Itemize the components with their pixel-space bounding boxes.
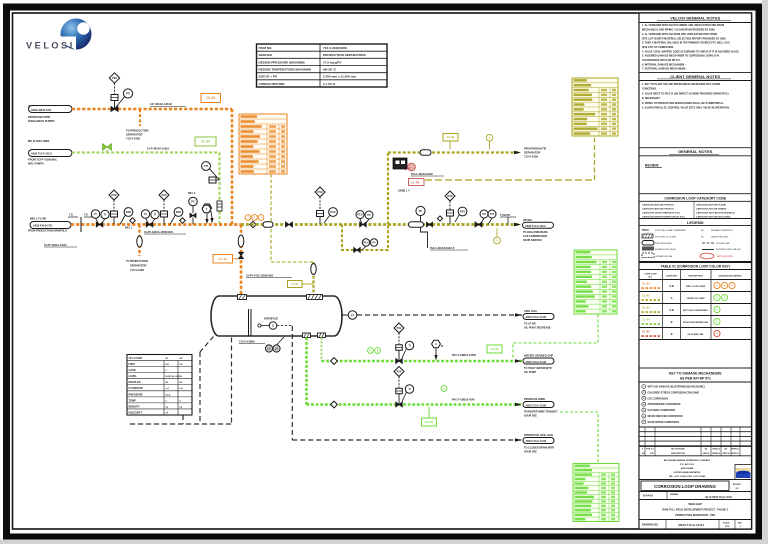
orange line list table bbox=[239, 114, 287, 174]
svg-text:WEL 2: WEL 2 bbox=[188, 192, 196, 195]
wire olive main header bbox=[241, 223, 520, 226]
damage ref olive header bbox=[494, 237, 501, 244]
label LWG GOA outlet bbox=[515, 313, 522, 316]
svg-text:DRWN A: DRWN A bbox=[712, 452, 720, 455]
svg-text:DATE A: DATE A bbox=[703, 452, 710, 455]
svg-text:VISCOSITY: VISCOSITY bbox=[129, 410, 143, 414]
corrosion loop tag CL-03 lower bbox=[422, 418, 437, 426]
svg-text:PSV: PSV bbox=[397, 327, 402, 330]
svg-text:WELL FLUID: WELL FLUID bbox=[30, 217, 46, 221]
svg-text:CL-05: CL-05 bbox=[642, 330, 650, 334]
wire green link top table bbox=[513, 315, 598, 359]
svg-text:CHKD A: CHKD A bbox=[712, 448, 720, 451]
svg-text:VELOSI GENERAL NOTES: VELOSI GENERAL NOTES bbox=[670, 16, 720, 21]
wire orange vertical riser A bbox=[231, 109, 234, 225]
svg-text:CONFIGURATION: CONFIGURATION bbox=[259, 82, 286, 86]
svg-text:AB23-713-G-13141: AB23-713-G-13141 bbox=[526, 404, 548, 407]
svg-text:PSV: PSV bbox=[397, 370, 402, 373]
svg-text:31-PY-4751-13500-B51: 31-PY-4751-13500-B51 bbox=[246, 274, 274, 278]
svg-text:SOUR SERVICE: SOUR SERVICE bbox=[523, 239, 542, 242]
svg-text:PV: PV bbox=[367, 213, 371, 217]
valve on olive header 3 bbox=[475, 222, 479, 227]
valve below PC bbox=[190, 213, 193, 218]
svg-text:TI: TI bbox=[408, 343, 411, 347]
svg-text:MICRO INDUCED CORROSION: MICRO INDUCED CORROSION bbox=[648, 415, 683, 418]
svg-text:31-PF-4391A-13500-B51: 31-PF-4391A-13500-B51 bbox=[144, 230, 174, 234]
svg-text:AS PER API RP 571: AS PER API RP 571 bbox=[680, 377, 711, 381]
instrument ESD circle 2 bbox=[174, 208, 183, 217]
corrosion loop tag CL-01 top bbox=[201, 94, 221, 103]
valve on orange drop bbox=[239, 252, 244, 259]
svg-text:PRH PRODUKTIE: PRH PRODUKTIE bbox=[524, 147, 546, 151]
valve on olive header 2 bbox=[427, 222, 430, 227]
svg-text:CL-04: CL-04 bbox=[201, 140, 210, 144]
transition diamond green line bbox=[331, 401, 338, 408]
instrument PSV diamond green bbox=[394, 323, 404, 333]
svg-text:LEVEL: LEVEL bbox=[129, 374, 138, 378]
svg-text:OIL PUMP: OIL PUMP bbox=[524, 371, 536, 374]
svg-text:AB23-713-G-13141: AB23-713-G-13141 bbox=[526, 440, 548, 443]
svg-text:CATEGORY-G(TO BE NON VESSELS): CATEGORY-G(TO BE NON VESSELS) bbox=[696, 212, 735, 215]
svg-text:GENERAL NOTES: GENERAL NOTES bbox=[678, 149, 713, 154]
svg-text:NO.: NO. bbox=[649, 277, 653, 279]
svg-text:CATEGORY-C(FOR STAINLESS STL): CATEGORY-C(FOR STAINLESS STL) bbox=[642, 212, 680, 215]
svg-text:3. TAKE A MATERIAL BALANCE IN: 3. TAKE A MATERIAL BALANCE IN THE PRIMAR… bbox=[642, 42, 730, 45]
valve butterfly green on MP line bbox=[103, 144, 108, 151]
svg-text:CL-03: CL-03 bbox=[491, 347, 499, 351]
svg-text:TO HIGH PRESSURE: TO HIGH PRESSURE bbox=[523, 231, 548, 234]
svg-text:DRAWING NO.: DRAWING NO. bbox=[642, 524, 659, 527]
wire green vertical from bottom nozzle 1 bbox=[305, 338, 308, 405]
choke valve green line bbox=[396, 388, 403, 394]
svg-text:A: A bbox=[671, 296, 673, 300]
svg-text:713-V-0108: 713-V-0108 bbox=[129, 356, 143, 360]
instrument PSD diamond on top line bbox=[109, 73, 119, 83]
corrosion loop tag CL-01 lower bbox=[213, 255, 233, 264]
inline pill on olive header bbox=[409, 222, 424, 228]
svg-text:AB23-713-G-13121: AB23-713-G-13121 bbox=[526, 316, 548, 319]
vessel nozzle group top right bbox=[307, 295, 323, 300]
svg-text:NOT IN SCOPE: NOT IN SCOPE bbox=[717, 256, 733, 258]
svg-text:barg: barg bbox=[166, 394, 171, 396]
svg-text:TI: TI bbox=[154, 212, 157, 216]
svg-text:ATMOSPHERIC CORROSION: ATMOSPHERIC CORROSION bbox=[648, 403, 681, 406]
svg-text:UNITED ARAB EMIRATES: UNITED ARAB EMIRATES bbox=[674, 471, 701, 474]
svg-text:PRODUCE WIRE: PRODUCE WIRE bbox=[524, 397, 545, 401]
svg-text:CL-02: CL-02 bbox=[642, 294, 650, 298]
svg-text:1. KEY TO PLANT ON LINE PRESSU: 1. KEY TO PLANT ON LINE PRESSURE/FLOW RE… bbox=[642, 83, 720, 86]
svg-text:ITEM NO.: ITEM NO. bbox=[259, 46, 273, 50]
instrument PIT on green drop bbox=[202, 162, 211, 171]
damage refs green line 1 bbox=[368, 348, 374, 354]
svg-text:3. PIPING TO PRODUCTION SEPARA: 3. PIPING TO PRODUCTION SEPARATIONS SHAL… bbox=[642, 102, 724, 105]
wire black dashed vessel left diagonal bbox=[200, 337, 214, 353]
control station black box bbox=[393, 158, 407, 169]
instrument PSD diamond olive 2 bbox=[445, 191, 455, 201]
svg-text:FROM PRODUCTION MANIFOLD: FROM PRODUCTION MANIFOLD bbox=[28, 230, 67, 233]
svg-text:PRODUCED WTR: PRODUCED WTR bbox=[28, 115, 50, 119]
svg-text:DAMAGE MECHANISM: DAMAGE MECHANISM bbox=[719, 275, 742, 278]
svg-text:FUTURE LINE: FUTURE LINE bbox=[716, 243, 730, 245]
svg-text:PSV: PSV bbox=[460, 209, 465, 213]
svg-text:WET GAS CONDENSATE: WET GAS CONDENSATE bbox=[683, 309, 708, 312]
svg-text:INTERFACE: INTERFACE bbox=[264, 318, 279, 321]
wire orange top line bbox=[72, 108, 232, 111]
svg-text:HP WC: HP WC bbox=[523, 218, 532, 222]
pipe flag MP flow line inlet bbox=[29, 150, 73, 157]
svg-text:PH-C-ADA3-034Z-F: PH-C-ADA3-034Z-F bbox=[430, 246, 455, 250]
instrument pair PI/TI well cluster 1 bbox=[91, 210, 99, 218]
sidebar key to damage mechanisms bbox=[639, 367, 752, 369]
inline item top olive line bbox=[420, 150, 431, 156]
svg-text:LWSB L 4: LWSB L 4 bbox=[398, 190, 410, 193]
instrument hexagon computer function bbox=[202, 204, 211, 212]
svg-text:TEL: +971 2 6060, FAX: +971 2: TEL: +971 2 6060, FAX: +971 2 6666 bbox=[669, 475, 707, 478]
svg-text:NO: NO bbox=[701, 230, 705, 232]
svg-text:PSD: PSD bbox=[112, 194, 117, 197]
svg-text:5. ASSUMED DAMAGE MECHANISM TO: 5. ASSUMED DAMAGE MECHANISM TO CORROSION… bbox=[642, 55, 719, 58]
svg-text:CL-01: CL-01 bbox=[206, 96, 215, 100]
damage ref olive top bbox=[486, 134, 493, 141]
choke valve 1 bbox=[111, 211, 118, 217]
svg-text:CORR LOOP: CORR LOOP bbox=[644, 274, 657, 276]
svg-text:Y: Y bbox=[206, 207, 208, 211]
svg-text:CORROSION LOOP DRAWING: CORROSION LOOP DRAWING bbox=[654, 484, 716, 489]
small diamond 1 bbox=[130, 218, 136, 224]
svg-text:SEPARATOR: SEPARATOR bbox=[126, 133, 142, 137]
svg-text:90/-29 °C: 90/-29 °C bbox=[323, 67, 337, 71]
svg-text:POST WELD HEAT TREATMENT: POST WELD HEAT TREATMENT bbox=[655, 229, 687, 232]
svg-text:PIPE INSULATED: PIPE INSULATED bbox=[655, 242, 672, 245]
sample point red circle bbox=[408, 163, 416, 171]
svg-text:31-PF-4391A-13116: 31-PF-4391A-13116 bbox=[44, 244, 67, 247]
instrument PSV diamond green bbox=[394, 367, 404, 377]
svg-text:PRESSURE: PRESSURE bbox=[129, 392, 144, 396]
svg-text:PSD: PSD bbox=[112, 77, 117, 80]
svg-text:SEPARATOR: SEPARATOR bbox=[130, 264, 146, 268]
svg-text:B: B bbox=[671, 320, 673, 324]
svg-text:SOUR SEE: SOUR SEE bbox=[524, 451, 537, 454]
svg-text:DESIGN TEMPERATURE (MAX/MIN): DESIGN TEMPERATURE (MAX/MIN) bbox=[259, 67, 311, 71]
svg-text:A-B: A-B bbox=[669, 284, 674, 288]
svg-text:SITE LIST IN WITH MATERIAL SEL: SITE LIST IN WITH MATERIAL SELECTION REP… bbox=[642, 37, 726, 40]
svg-text:B: B bbox=[671, 332, 673, 336]
svg-text:WATER/ SEAWED GHE: WATER/ SEAWED GHE bbox=[524, 354, 553, 358]
label water outlet bbox=[515, 359, 522, 362]
svg-text:CL-7B: CL-7B bbox=[411, 181, 419, 185]
svg-text:NOR.OIL LEVEL: NOR.OIL LEVEL bbox=[166, 376, 183, 378]
wire green produced water line 1 bbox=[307, 403, 523, 406]
svg-text:SOUR WATER CORROSION: SOUR WATER CORROSION bbox=[648, 421, 680, 424]
svg-text:TO LP WC: TO LP WC bbox=[524, 323, 536, 326]
svg-text:P.O. BOX 303: P.O. BOX 303 bbox=[680, 464, 694, 466]
svg-text:PSD: PSD bbox=[448, 195, 453, 198]
svg-text:PSD: PSD bbox=[162, 194, 167, 197]
wire olive long-dash link line bbox=[425, 179, 595, 181]
svg-text:WEL 1: WEL 1 bbox=[125, 227, 133, 230]
svg-text:PIT: PIT bbox=[204, 164, 208, 168]
svg-text:V E L O S I: V E L O S I bbox=[26, 41, 72, 51]
svg-text:SOUR SEE: SOUR SEE bbox=[524, 415, 537, 418]
svg-text:PC: PC bbox=[191, 199, 195, 203]
svg-text:AB23-713-G-13131: AB23-713-G-13131 bbox=[526, 361, 548, 364]
svg-text:CHLORIDE STRESS CORROSION CRAC: CHLORIDE STRESS CORROSION CRACKING bbox=[648, 391, 700, 394]
svg-text:DATE B: DATE B bbox=[723, 452, 731, 455]
svg-text:WEL PUMPS: WEL PUMPS bbox=[28, 162, 44, 166]
svg-text:PIT: PIT bbox=[490, 212, 494, 216]
svg-text:FLOWRATE: FLOWRATE bbox=[129, 386, 144, 390]
svg-text:0/0: 0/0 bbox=[736, 488, 739, 490]
svg-text:CL-02: CL-02 bbox=[447, 135, 455, 139]
wire black dashed vessel drop bbox=[231, 338, 233, 425]
svg-text:2. AL VERSIONS WITH P&I STEM A: 2. AL VERSIONS WITH P&I STEM ARE USED EX… bbox=[642, 33, 717, 36]
wire orange drop to vessel nozzle bbox=[240, 225, 243, 296]
svg-text:PIT: PIT bbox=[126, 91, 130, 95]
svg-text:ABU DHABI MARINE OPERATING COM: ABU DHABI MARINE OPERATING COMPANY bbox=[664, 459, 711, 462]
wire black dashed drain vertical bbox=[291, 326, 293, 440]
instrument LT on vessel right head bbox=[341, 314, 348, 316]
sidebar outline bbox=[639, 13, 752, 529]
instrument PIT circle top line bbox=[123, 89, 132, 98]
svg-text:HA-VI-AB23-713-G-13111: HA-VI-AB23-713-G-13111 bbox=[705, 496, 733, 499]
valve on green line bbox=[396, 402, 399, 407]
svg-text:CL-03: CL-03 bbox=[642, 306, 650, 310]
wire green MP line bbox=[72, 151, 220, 153]
svg-text:A: A bbox=[435, 342, 437, 346]
svg-text:713-V-0108/0208: 713-V-0108/0208 bbox=[323, 46, 347, 50]
svg-text:713-V-0108: 713-V-0108 bbox=[126, 137, 140, 141]
svg-text:SCALE: SCALE bbox=[723, 522, 730, 525]
sidebar drawing type box bbox=[639, 479, 752, 481]
corrosion loop tag CL-04 bbox=[195, 137, 216, 146]
arrow to main line bbox=[206, 213, 208, 219]
svg-text:PN-1T-ADB23-4340: PN-1T-ADB23-4340 bbox=[452, 399, 475, 402]
svg-text:FROM 713-P-0158A/B/C: FROM 713-P-0158A/B/C bbox=[28, 158, 57, 162]
svg-text:ABU DHABI: ABU DHABI bbox=[681, 467, 694, 470]
valve actuated on green drop bbox=[209, 177, 216, 183]
svg-text:OPERATION LINE: OPERATION LINE bbox=[655, 255, 673, 258]
svg-text:CO2 CORROSION: CO2 CORROSION bbox=[648, 397, 669, 400]
instrument PSD diamond 2 bbox=[159, 190, 169, 200]
vessel bottom nozzle 1 bbox=[303, 333, 311, 338]
svg-text:CATEGORY-A(TO BE PWHT-D): CATEGORY-A(TO BE PWHT-D) bbox=[642, 203, 674, 206]
svg-text:TO TIGHT WATER/WTR: TO TIGHT WATER/WTR bbox=[524, 367, 552, 370]
choke valve olive 2 bbox=[447, 210, 454, 216]
wire orange main header bbox=[71, 223, 241, 226]
svg-text:7. EXTERNAL DAMAGE MECHANISM: 7. EXTERNAL DAMAGE MECHANISM ○ bbox=[642, 68, 688, 71]
wire green water line 1 elbow bbox=[322, 360, 523, 363]
svg-text:CL-04: CL-04 bbox=[642, 318, 650, 322]
valve on olive header mid bbox=[360, 222, 363, 227]
svg-text:PN-1T-ADB2J-13500: PN-1T-ADB2J-13500 bbox=[452, 354, 477, 357]
svg-text:NTS: NTS bbox=[725, 526, 730, 528]
wire black dashed under table bbox=[130, 423, 232, 425]
instrument LG pair below vessel bbox=[265, 345, 272, 352]
svg-text:EXISTING LIMIT LINE (IS): EXISTING LIMIT LINE (IS) bbox=[716, 249, 741, 251]
vessel nozzle N1 top left bbox=[238, 295, 247, 300]
svg-text:TI: TI bbox=[104, 212, 107, 216]
svg-text:AB23-438-B-1731: AB23-438-B-1731 bbox=[33, 224, 53, 227]
svg-text:TO CLOSED DRAIN WITH: TO CLOSED DRAIN WITH bbox=[524, 447, 554, 450]
wire black dashed table hook bbox=[182, 415, 184, 424]
svg-text:KEY TO DAMAGE MECHANISMS: KEY TO DAMAGE MECHANISMS bbox=[669, 372, 722, 376]
svg-text:713-V-0108A: 713-V-0108A bbox=[239, 340, 255, 344]
svg-text:LG: LG bbox=[275, 348, 278, 351]
svg-text:RAW FULL FIELD DEVELOPMENT PRO: RAW FULL FIELD DEVELOPMENT PROJECT - PHA… bbox=[662, 509, 729, 512]
svg-text:CRUDE OIL LINES: CRUDE OIL LINES bbox=[686, 298, 705, 300]
wire orange branch to separator train 2 bbox=[138, 225, 140, 257]
instrument pair PCV PV on header bbox=[356, 211, 364, 219]
instrument TI circle green bbox=[405, 341, 413, 349]
label interface outlet bbox=[515, 438, 522, 441]
wire olive top line to separator bbox=[388, 151, 520, 153]
svg-text:DN: DN bbox=[166, 364, 170, 366]
svg-text:DENSITY: DENSITY bbox=[129, 404, 141, 408]
svg-text:PSD: PSD bbox=[318, 191, 323, 194]
svg-text:LWG GOA: LWG GOA bbox=[524, 309, 537, 313]
wire black signal below header bbox=[421, 225, 428, 249]
instrument ESD circle 1 bbox=[124, 208, 133, 217]
black data table lower left bbox=[127, 355, 192, 416]
bypass loop under header bbox=[342, 225, 388, 251]
wire black dashed LP gas line bbox=[357, 314, 522, 316]
wire green vertical from bottom nozzle 2 bbox=[321, 338, 323, 362]
choke valve 2 bbox=[161, 211, 168, 217]
svg-text:AB23-713-G-13111: AB23-713-G-13111 bbox=[525, 225, 546, 228]
svg-text:2 x 50 %: 2 x 50 % bbox=[323, 82, 335, 86]
svg-text:WHO-HHP: WHO-HHP bbox=[688, 502, 702, 506]
svg-text:ESD: ESD bbox=[126, 210, 131, 214]
corrosion loop tag CL-02 top bbox=[443, 134, 458, 142]
valve on main header 2 bbox=[146, 222, 149, 227]
svg-text:SIZE ID + PS: SIZE ID + PS bbox=[259, 75, 277, 79]
svg-text:1. AL VERSIONS WITH P&I DOCUME: 1. AL VERSIONS WITH P&I DOCUMENT ARE USE… bbox=[642, 24, 724, 27]
svg-text:APPD A: APPD A bbox=[731, 448, 739, 451]
svg-text:DESCRIPTION: DESCRIPTION bbox=[671, 453, 685, 455]
svg-text:IN SCOPE OF CLIENT: IN SCOPE OF CLIENT bbox=[655, 237, 677, 239]
label HP WC outlet bbox=[514, 223, 521, 226]
svg-text:SITE LIST OF CORROSION.: SITE LIST OF CORROSION. bbox=[642, 46, 674, 49]
client logo box bbox=[735, 465, 752, 480]
label produced water outlet bbox=[515, 403, 522, 406]
green line list table lower bbox=[573, 464, 619, 522]
svg-text:17.5 barg/FV: 17.5 barg/FV bbox=[323, 60, 342, 64]
svg-text:APPD B: APPD B bbox=[731, 452, 739, 455]
svg-text:DISCHARGE PUMPS: DISCHARGE PUMPS bbox=[28, 119, 55, 123]
svg-text:LT: LT bbox=[351, 313, 354, 317]
svg-text:M: M bbox=[441, 345, 443, 348]
svg-text:75 PRODUCTION: 75 PRODUCTION bbox=[126, 259, 148, 263]
svg-text:4. 2x100% PARALLEL CONTROL VAL: 4. 2x100% PARALLEL CONTROL VALVE SETS ON… bbox=[642, 107, 730, 110]
svg-text:TABLE 01 (CORROSION LOOP COLOR: TABLE 01 (CORROSION LOOP COLOR KEY) bbox=[661, 265, 730, 269]
red tag box CL-7B bbox=[409, 179, 425, 186]
svg-text:ISS FOR REV: ISS FOR REV bbox=[671, 449, 685, 451]
valve actuated on PSD stem bbox=[111, 95, 118, 101]
transition diamond on header bbox=[250, 221, 256, 227]
wire orange branch down to separator note bbox=[139, 109, 141, 126]
vessel production separator 713-V-0108 bbox=[211, 296, 342, 336]
instrument hexagon with arrow bbox=[202, 205, 211, 213]
svg-text:NORMAL OPERATION: NORMAL OPERATION bbox=[711, 229, 733, 232]
svg-text:3,700 mm x 11,500 mm: 3,700 mm x 11,500 mm bbox=[323, 75, 356, 79]
wire green link bottom table bbox=[560, 412, 598, 463]
tee sample point on main header bbox=[80, 217, 82, 232]
wire olive link riser to table bbox=[594, 136, 596, 180]
instrument hexagon green line 1 bbox=[432, 340, 441, 348]
svg-text:CATEGORY-E(TO BE PLATE): CATEGORY-E(TO BE PLATE) bbox=[696, 203, 726, 206]
svg-text:IF NECESSARY.: IF NECESSARY. bbox=[642, 97, 661, 100]
svg-text:HP FLARE LINE: HP FLARE LINE bbox=[688, 333, 704, 336]
page margin shading bbox=[762, 0, 768, 544]
damage mechanism refs orange bbox=[245, 215, 251, 221]
svg-text:PCV: PCV bbox=[357, 212, 363, 216]
choke valve green line bbox=[396, 345, 403, 351]
olive line list table bbox=[572, 78, 618, 136]
svg-text:AB23-438-B-1731: AB23-438-B-1731 bbox=[31, 109, 52, 112]
svg-text:UNDER GROUND: UNDER GROUND bbox=[711, 237, 729, 239]
instrument PC circle olive bbox=[416, 206, 425, 215]
svg-text:ITEM: ITEM bbox=[129, 362, 135, 366]
svg-text:LG: LG bbox=[267, 348, 270, 351]
svg-text:CL-01: CL-01 bbox=[642, 282, 650, 286]
svg-text:CL-02: CL-02 bbox=[291, 283, 298, 286]
svg-text:GAS COMPRESSOR: GAS COMPRESSOR bbox=[523, 235, 547, 238]
svg-text:CATEGORY-F(TO BE TANKS): CATEGORY-F(TO BE TANKS) bbox=[696, 207, 726, 210]
svg-text:PRODUCED WATER LINE: PRODUCED WATER LINE bbox=[683, 321, 709, 324]
svg-text:REVIEW:: REVIEW: bbox=[645, 164, 659, 168]
corrosion loop tag olive near vessel bbox=[288, 281, 303, 288]
svg-text:CASE: CASE bbox=[129, 368, 136, 372]
instrument pair on bypass bbox=[362, 239, 369, 246]
spectacle blind on green drop bbox=[217, 201, 222, 211]
instrument pair PG PIT olive bbox=[480, 210, 488, 218]
svg-text:31-P-4014A-13116: 31-P-4014A-13116 bbox=[147, 147, 169, 151]
instrument PC circle bbox=[189, 197, 198, 206]
wire olive connector table to vessel bbox=[270, 174, 272, 262]
svg-text:PCV: PCV bbox=[363, 240, 369, 244]
svg-text:PWHT: PWHT bbox=[642, 230, 649, 232]
svg-text:ESD: ESD bbox=[176, 210, 181, 214]
svg-text:WET H2S DAMAGE (BLISTERING/SSC: WET H2S DAMAGE (BLISTERING/SSC/HIC/SOHIC… bbox=[648, 386, 705, 389]
svg-text:WELL FLUID LINES: WELL FLUID LINES bbox=[686, 286, 706, 288]
svg-text:PH-C-ADA3-034Z: PH-C-ADA3-034Z bbox=[411, 172, 433, 176]
svg-text:T.O.: T.O. bbox=[84, 214, 89, 217]
svg-text:TO PRODUCTION: TO PRODUCTION bbox=[126, 129, 149, 133]
choke valve olive 1 bbox=[317, 211, 324, 217]
svg-text:NC: NC bbox=[701, 237, 705, 239]
inline item on olive connector bbox=[311, 264, 316, 275]
vessel weir plates bbox=[248, 309, 250, 336]
svg-text:A-B: A-B bbox=[669, 308, 674, 312]
instrument PSV circle olive 1 bbox=[329, 208, 338, 217]
svg-text:SEPARATOR: SEPARATOR bbox=[524, 151, 540, 155]
svg-text:TI: TI bbox=[408, 387, 411, 391]
svg-text:DRAWN: DRAWN bbox=[670, 493, 679, 496]
valve on green line bbox=[396, 359, 399, 364]
svg-text:PRODUCTION SEPARATORS: PRODUCTION SEPARATORS bbox=[323, 53, 366, 57]
damage ref green line 2 bbox=[441, 386, 447, 392]
svg-text:05-04-09: 05-04-09 bbox=[643, 495, 653, 498]
svg-text:2. VALVE WEST TO PILE FLOW DIR: 2. VALVE WEST TO PILE FLOW DIRECT SCHEME… bbox=[642, 92, 730, 95]
svg-text:GALVANIC CORROSION: GALVANIC CORROSION bbox=[648, 409, 676, 412]
svg-text:3-P-4014A-1311B: 3-P-4014A-1311B bbox=[150, 102, 172, 106]
instrument PSD diamond olive 1 bbox=[315, 187, 325, 197]
instrument TI circle green bbox=[405, 385, 413, 393]
sidebar revision table bbox=[639, 426, 752, 428]
instrument PSV circle olive 2 bbox=[458, 207, 467, 216]
svg-text:DESCRIPTION: DESCRIPTION bbox=[688, 276, 703, 278]
small diamond 2 bbox=[180, 218, 186, 224]
